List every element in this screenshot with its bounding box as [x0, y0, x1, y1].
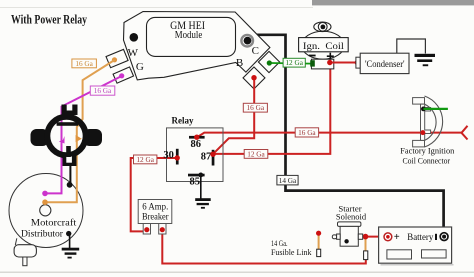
relay pin 30 [163, 149, 180, 165]
distributor body circle [9, 174, 83, 248]
svg-text:Battery: Battery [407, 232, 433, 242]
wire: orange from W to distributor [45, 60, 114, 202]
node orange pickup dot [42, 199, 48, 205]
factory ignition coil connector [413, 96, 443, 147]
condenser box [356, 53, 409, 73]
label 12 Ga green box [283, 58, 305, 67]
fusible link legend symbol [316, 231, 321, 257]
wire: red coil plus to condenser [332, 62, 356, 64]
svg-text:16 Ga: 16 Ga [75, 59, 93, 68]
svg-text:C: C [252, 45, 259, 57]
svg-text:+: + [394, 232, 400, 243]
svg-text:16 Ga: 16 Ga [94, 86, 112, 95]
svg-text:Ign. Coil: Ign. Coil [303, 41, 344, 52]
ignition coil tower [314, 22, 331, 32]
svg-text:Module: Module [175, 30, 203, 41]
svg-text:86: 86 [191, 139, 202, 150]
wire: black from module B-side edge to battery negative [257, 35, 444, 233]
connector pin magenta [59, 136, 65, 144]
decorative top faint line [0, 7, 313, 8]
wire: red from relay 30 to breaker left terminal [131, 158, 177, 231]
module mounting hole right (ringed) [241, 35, 253, 47]
op module U1 GM HEI octagon body [124, 12, 270, 80]
relay box [167, 128, 224, 182]
svg-text:Distributor: Distributor [21, 229, 63, 239]
label 16 Ga red box (coil feed wire) [295, 128, 318, 137]
wire: relay 85 to ground [200, 176, 202, 199]
svg-text:Solenoid: Solenoid [336, 211, 367, 221]
wire: black connector to distributor [67, 160, 73, 188]
battery box [379, 227, 454, 265]
wire: condenser to ground [397, 39, 426, 54]
battery bar mark [435, 234, 437, 240]
relay pin 85 [188, 173, 205, 188]
battery plus terminal [384, 232, 400, 243]
wire: red from relay 86 to factory connector (with end arrow) [198, 126, 468, 140]
svg-text:W: W [128, 47, 139, 59]
label factory connector [400, 146, 455, 165]
battery negative terminal [440, 233, 448, 241]
terminal B diamond [243, 67, 265, 89]
breaker terminals [143, 224, 166, 235]
wire: green pigtail on connector [423, 108, 448, 110]
terminal W tab [106, 49, 128, 67]
node connector red dot [420, 130, 425, 135]
svg-text:Fusible Link: Fusible Link [271, 247, 312, 257]
svg-text:With Power Relay: With Power Relay [11, 13, 88, 27]
svg-text:6 Amp.: 6 Amp. [142, 201, 168, 211]
svg-text:Motorcraft: Motorcraft [31, 218, 77, 228]
distributor ground [62, 231, 79, 259]
wire: green from C to ignition coil minus [267, 60, 312, 65]
svg-text:16 Ga: 16 Ga [298, 128, 316, 137]
decorative top gray bar [312, 0, 474, 5]
svg-text:30: 30 [163, 150, 174, 161]
coil minus terminal green square [310, 60, 315, 66]
label 16 Ga magenta box [90, 86, 115, 95]
decorative bottom gray line [0, 272, 474, 273]
svg-text:12 Ga: 12 Ga [136, 155, 154, 164]
wire: red from B down to relay 87 [213, 78, 254, 154]
terminal G tab [113, 67, 133, 83]
vacuum advance pod [14, 238, 36, 265]
ground right of condenser [415, 54, 436, 66]
label 14 Ga black box on battery wire [277, 175, 298, 185]
svg-text:16 Ga: 16 Ga [247, 103, 265, 112]
wire: magenta from G to distributor [45, 76, 121, 193]
wire: red from coil + down and left to relay 87 [213, 64, 330, 154]
node junction solenoid/battery dot [363, 234, 369, 240]
distributor connector (black plug) [31, 105, 103, 167]
ignition coil terminal block [311, 59, 333, 69]
svg-text:Factory Ignition: Factory Ignition [400, 146, 455, 155]
svg-text:Coil Connector: Coil Connector [403, 157, 451, 166]
svg-text:Relay: Relay [172, 116, 194, 126]
svg-text:B: B [236, 57, 243, 69]
connector pin orange [76, 135, 82, 142]
svg-text:12 Ga: 12 Ga [247, 149, 265, 158]
terminal C diamond [258, 51, 279, 72]
relay pin 87 [201, 150, 216, 166]
svg-text:87: 87 [201, 151, 212, 162]
node magenta pickup dot [42, 191, 48, 197]
wire: red solenoid to battery plus [360, 236, 384, 238]
label 16 Ga orange box [72, 59, 97, 68]
svg-text:G: G [136, 61, 144, 73]
svg-text:Breaker: Breaker [142, 211, 169, 221]
svg-text:12 Ga: 12 Ga [285, 58, 303, 67]
label 16 Ga red box (B wire) [243, 103, 267, 112]
label 12 Ga red box (30 wire) [134, 155, 157, 164]
label 12 Ga red box (87 to coil) [244, 149, 268, 158]
wire: red from breaker right terminal along bottom to fusible link [162, 232, 365, 264]
module mounting hole left (black dot) [130, 33, 139, 42]
starter solenoid [332, 203, 367, 246]
coil plus mark [327, 53, 334, 60]
fusible link (circuit) orange lead [364, 238, 368, 260]
svg-text:14 Ga: 14 Ga [279, 176, 297, 185]
ignition coil label box [299, 38, 349, 52]
ground under relay [195, 198, 211, 209]
svg-text:'Condenser': 'Condenser' [365, 60, 405, 70]
module inner rounded label box [147, 17, 236, 56]
node condenser lead dot [355, 60, 360, 65]
label 14 Ga. Fusible Link [271, 238, 312, 257]
breaker box 6 Amp [138, 200, 172, 224]
node B terminal dot [251, 75, 256, 80]
ignition coil dome [302, 31, 345, 59]
coil plus terminal red dot [327, 60, 332, 65]
svg-text:85: 85 [189, 177, 200, 188]
relay pin 86 [189, 135, 205, 151]
coil minus mark [309, 55, 316, 57]
